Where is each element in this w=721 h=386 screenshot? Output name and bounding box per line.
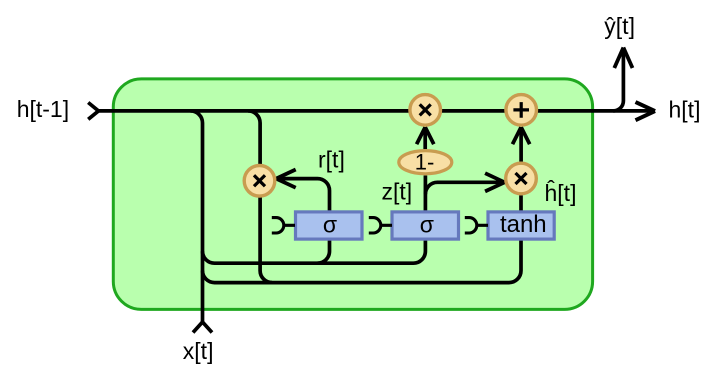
- svg-text:z[t]: z[t]: [382, 178, 413, 204]
- input fork h[t-1]: [88, 103, 98, 120]
- adder circle: [506, 95, 537, 126]
- sigma box (update gate) U2: [392, 212, 459, 239]
- concat symbol (update): [369, 218, 392, 233]
- multiplier circle (forget gate): [410, 95, 441, 126]
- GRU cell body (green rounded box): [113, 79, 592, 310]
- input fork x[t]: [193, 322, 212, 333]
- multiplier circle (candidate gate): [506, 163, 537, 194]
- svg-text:ŷ[t]: ŷ[t]: [604, 13, 635, 39]
- 1- ellipse: [399, 151, 452, 174]
- wire V2: h-line branch down through reset gate multiplier: [248, 111, 272, 283]
- svg-text:h[t-1]: h[t-1]: [17, 96, 69, 122]
- arrowhead into adder: [513, 127, 530, 144]
- arrowhead h[t]: [636, 102, 656, 120]
- svg-text:ĥ[t]: ĥ[t]: [545, 179, 577, 206]
- wire 1- ellipse up to forget multiplier: [423, 128, 427, 150]
- wire candidate multiplier up to adder: [519, 128, 523, 162]
- sigma box (reset gate) U1: [296, 212, 363, 239]
- wire z branch to candidate multiplier: [425, 182, 502, 194]
- wire bus B: x[t]/V2 to tanh bottom: [203, 239, 522, 283]
- concat symbol (candidate): [465, 218, 488, 233]
- wire V1: h-line branch down to x[t] fork: [191, 111, 203, 322]
- wire sigma-r output to reset multiplier: [278, 179, 330, 212]
- wire bus A: V1 to sigma-r bottom and sigma-z bottom: [203, 239, 426, 263]
- svg-text:1-: 1-: [415, 150, 435, 175]
- svg-text:σ: σ: [323, 212, 337, 238]
- arrowhead into reset multiplier: [276, 170, 296, 188]
- svg-text:σ: σ: [420, 212, 434, 238]
- wire tanh output up to candidate multiplier: [519, 195, 523, 212]
- concat symbol (reset): [272, 218, 295, 233]
- multiplier circle (reset gate): [244, 166, 275, 197]
- wire ŷ[t] branch: [613, 49, 623, 111]
- svg-text:tanh: tanh: [500, 211, 547, 238]
- wire sigma-r bottom join to bus A: [318, 239, 330, 263]
- arrowhead into candidate multiplier: [485, 173, 505, 191]
- wire h[t-1] horizontal line to h[t]: [99, 109, 653, 113]
- arrowhead ŷ[t]: [614, 48, 632, 69]
- svg-text:x[t]: x[t]: [183, 338, 214, 364]
- svg-text:h[t]: h[t]: [669, 97, 701, 123]
- tanh box U3: [488, 212, 554, 239]
- wire sigma-z output up to 1- ellipse: [424, 176, 428, 213]
- svg-text:r[t]: r[t]: [318, 147, 345, 173]
- arrowhead into forget multiplier: [417, 127, 434, 144]
